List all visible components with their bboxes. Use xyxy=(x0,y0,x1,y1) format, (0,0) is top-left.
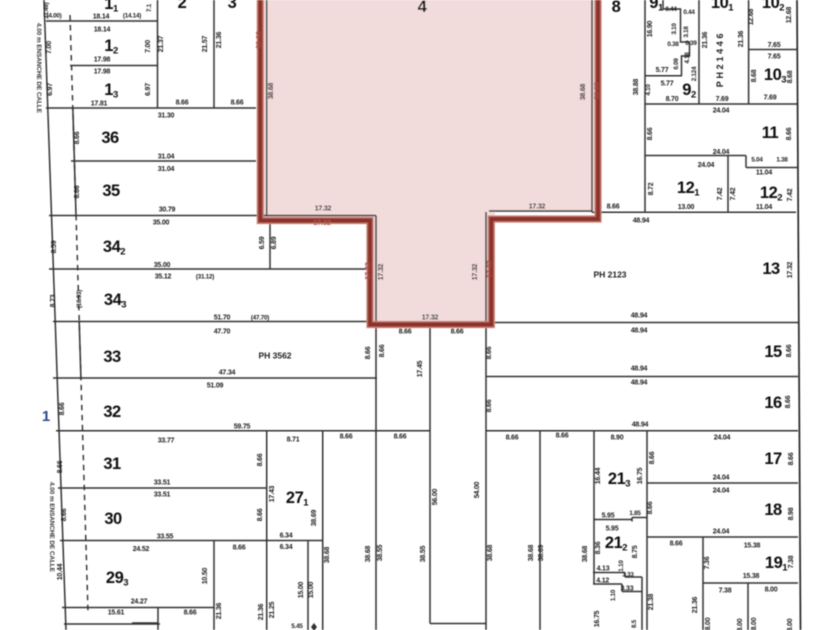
svg-text:21.36: 21.36 xyxy=(738,30,745,47)
svg-text:0.38: 0.38 xyxy=(667,41,679,48)
svg-text:6.97: 6.97 xyxy=(47,83,54,96)
svg-text:8.90: 8.90 xyxy=(611,435,624,442)
svg-text:38.69: 38.69 xyxy=(311,509,318,526)
svg-text:(16.93): (16.93) xyxy=(76,290,83,308)
parcel 9 staircase xyxy=(663,0,690,76)
svg-text:(1.49): (1.49) xyxy=(43,2,50,17)
svg-text:12: 12 xyxy=(104,37,118,57)
svg-text:8.66: 8.66 xyxy=(379,344,386,357)
svg-text:7.42: 7.42 xyxy=(787,188,794,201)
svg-text:24.04: 24.04 xyxy=(713,529,730,536)
svg-text:1.85: 1.85 xyxy=(629,510,641,517)
svg-text:21.25: 21.25 xyxy=(269,601,276,618)
svg-text:4.13: 4.13 xyxy=(597,566,610,573)
svg-text:33.51: 33.51 xyxy=(154,480,171,487)
svg-text:15.38: 15.38 xyxy=(743,573,760,580)
svg-text:24.04: 24.04 xyxy=(713,475,730,482)
svg-text:11: 11 xyxy=(762,124,779,142)
svg-text:8.66: 8.66 xyxy=(607,204,620,211)
svg-text:103: 103 xyxy=(764,66,786,86)
svg-text:8.66: 8.66 xyxy=(257,453,264,466)
svg-text:0.39: 0.39 xyxy=(685,40,697,47)
svg-text:10.44: 10.44 xyxy=(57,563,64,580)
svg-text:31.30: 31.30 xyxy=(158,113,175,120)
svg-text:8.66: 8.66 xyxy=(61,508,68,521)
svg-text:38.68: 38.68 xyxy=(324,546,331,563)
svg-text:343: 343 xyxy=(104,291,126,311)
svg-text:8.66: 8.66 xyxy=(649,451,656,464)
svg-text:6.97: 6.97 xyxy=(145,83,152,96)
svg-text:5.77: 5.77 xyxy=(661,81,674,88)
svg-text:18.14: 18.14 xyxy=(93,14,110,21)
parcel boundary lines xyxy=(46,20,157,22)
left edge solid segments (36/35 and 33) xyxy=(73,107,76,216)
svg-text:8.59: 8.59 xyxy=(51,240,58,253)
svg-text:6.59: 6.59 xyxy=(259,236,266,249)
svg-text:24.04: 24.04 xyxy=(698,162,715,169)
svg-text:15.38: 15.38 xyxy=(744,543,761,550)
svg-text:38.68: 38.68 xyxy=(580,83,587,100)
svg-text:10.50: 10.50 xyxy=(202,567,209,584)
parcel 4 heavy red boundary xyxy=(260,0,598,325)
svg-text:17.32: 17.32 xyxy=(365,262,372,280)
svg-text:17.32: 17.32 xyxy=(472,263,479,280)
svg-text:8.00: 8.00 xyxy=(705,617,712,630)
svg-text:16.90: 16.90 xyxy=(647,20,654,37)
svg-text:8.00: 8.00 xyxy=(751,617,758,630)
svg-text:121: 121 xyxy=(677,179,700,199)
svg-text:7.65: 7.65 xyxy=(768,54,781,61)
svg-text:6.89: 6.89 xyxy=(271,236,278,249)
svg-text:12.68: 12.68 xyxy=(748,8,755,25)
svg-text:271: 271 xyxy=(286,489,309,509)
svg-text:17: 17 xyxy=(764,450,782,468)
svg-text:8.66: 8.66 xyxy=(486,399,493,412)
svg-text:15.61: 15.61 xyxy=(108,610,125,617)
svg-text:32: 32 xyxy=(103,403,121,421)
svg-text:30: 30 xyxy=(104,510,122,528)
svg-text:8.66: 8.66 xyxy=(486,346,493,359)
svg-text:8.66: 8.66 xyxy=(399,329,412,336)
parcel 4 pink fill xyxy=(262,0,595,321)
svg-text:17.32: 17.32 xyxy=(315,206,332,213)
svg-text:7.65: 7.65 xyxy=(768,42,781,49)
svg-text:11.04: 11.04 xyxy=(756,204,772,211)
svg-text:(31.12): (31.12) xyxy=(196,274,214,281)
svg-text:31: 31 xyxy=(103,455,121,473)
svg-text:5.77: 5.77 xyxy=(656,67,669,74)
svg-text:15.00: 15.00 xyxy=(308,581,315,598)
svg-text:8: 8 xyxy=(612,0,621,16)
svg-text:8.66: 8.66 xyxy=(57,460,64,473)
svg-text:17.32: 17.32 xyxy=(313,220,331,227)
ensanche dashed line xyxy=(70,15,88,612)
svg-text:35.12: 35.12 xyxy=(155,274,172,281)
svg-text:15.00: 15.00 xyxy=(298,581,305,598)
svg-text:21.36: 21.36 xyxy=(258,603,265,620)
svg-text:38.68: 38.68 xyxy=(528,544,535,561)
svg-text:54.00: 54.00 xyxy=(474,481,481,498)
svg-text:8.66: 8.66 xyxy=(788,452,795,465)
svg-text:13: 13 xyxy=(762,260,780,278)
svg-text:8.98: 8.98 xyxy=(788,507,795,520)
svg-text:17.32: 17.32 xyxy=(487,260,494,278)
svg-text:5.95: 5.95 xyxy=(606,526,619,533)
svg-text:30.79: 30.79 xyxy=(159,207,176,214)
svg-text:0.44: 0.44 xyxy=(683,9,695,16)
svg-text:8.71: 8.71 xyxy=(287,437,300,444)
svg-text:24.52: 24.52 xyxy=(133,546,150,553)
svg-text:7.69: 7.69 xyxy=(764,95,777,102)
svg-text:3.10: 3.10 xyxy=(671,23,678,35)
svg-text:7.69: 7.69 xyxy=(716,96,729,103)
svg-text:24.04: 24.04 xyxy=(714,435,731,442)
svg-text:13.00: 13.00 xyxy=(678,204,695,211)
svg-text:212: 212 xyxy=(605,534,627,554)
svg-text:38.68: 38.68 xyxy=(487,544,494,561)
svg-text:6.34: 6.34 xyxy=(280,533,293,540)
svg-text:8.66: 8.66 xyxy=(74,131,81,144)
svg-text:48.94: 48.94 xyxy=(631,328,648,335)
svg-text:101: 101 xyxy=(711,0,734,14)
svg-text:8.66: 8.66 xyxy=(233,545,246,552)
svg-text:38.68: 38.68 xyxy=(268,82,275,99)
svg-text:8.66: 8.66 xyxy=(647,501,654,514)
svg-text:8.75: 8.75 xyxy=(632,545,639,558)
svg-text:38.68: 38.68 xyxy=(582,545,589,562)
svg-text:8.66: 8.66 xyxy=(184,610,197,617)
svg-text:2: 2 xyxy=(178,0,187,12)
svg-text:16: 16 xyxy=(764,394,782,412)
svg-text:8.66: 8.66 xyxy=(365,346,372,359)
svg-text:35: 35 xyxy=(102,182,120,200)
svg-text:47.70: 47.70 xyxy=(214,329,231,336)
svg-text:17.32: 17.32 xyxy=(422,315,439,322)
svg-text:8.68: 8.68 xyxy=(751,69,758,82)
small diamond mark bottom center xyxy=(311,623,317,630)
svg-text:5.95: 5.95 xyxy=(602,513,615,520)
svg-text:4.00 m ENSANCHE DE CALLE: 4.00 m ENSANCHE DE CALLE xyxy=(35,23,42,113)
svg-text:92: 92 xyxy=(682,81,696,101)
svg-text:12.68: 12.68 xyxy=(786,6,793,23)
svg-text:8.66: 8.66 xyxy=(506,435,519,442)
svg-text:31.04: 31.04 xyxy=(158,166,175,173)
svg-text:102: 102 xyxy=(762,0,784,14)
svg-text:15: 15 xyxy=(764,343,782,361)
svg-text:59.75: 59.75 xyxy=(234,424,251,431)
svg-text:48.94: 48.94 xyxy=(632,422,649,429)
svg-text:8.00: 8.00 xyxy=(737,618,744,630)
svg-text:1.38: 1.38 xyxy=(776,157,788,164)
svg-text:293: 293 xyxy=(106,569,128,589)
svg-text:8.66: 8.66 xyxy=(785,395,792,408)
svg-text:31.04: 31.04 xyxy=(158,154,175,161)
svg-text:48.94: 48.94 xyxy=(631,380,648,387)
svg-text:35.00: 35.00 xyxy=(154,262,171,269)
svg-text:36: 36 xyxy=(101,129,119,147)
svg-text:0.44: 0.44 xyxy=(665,6,677,13)
svg-text:(14.14): (14.14) xyxy=(123,13,141,20)
svg-text:7.42: 7.42 xyxy=(730,187,737,200)
svg-text:21.36: 21.36 xyxy=(692,596,699,613)
svg-text:17.43: 17.43 xyxy=(269,485,276,502)
svg-text:8.66: 8.66 xyxy=(451,329,464,336)
svg-text:38.68: 38.68 xyxy=(365,545,372,562)
svg-text:38.68: 38.68 xyxy=(256,31,263,49)
svg-text:8.00: 8.00 xyxy=(787,618,794,630)
svg-text:PH21446: PH21446 xyxy=(715,31,725,87)
svg-text:21.36: 21.36 xyxy=(216,31,223,48)
svg-text:7.38: 7.38 xyxy=(788,555,795,568)
svg-text:24.27: 24.27 xyxy=(131,599,148,606)
svg-text:5.45: 5.45 xyxy=(291,623,303,630)
svg-text:8.66: 8.66 xyxy=(670,541,683,548)
svg-text:33.77: 33.77 xyxy=(158,438,175,445)
outer slanted street boundary xyxy=(44,0,66,630)
svg-text:21.38: 21.38 xyxy=(648,593,655,610)
svg-text:18: 18 xyxy=(764,501,782,519)
svg-text:8.72: 8.72 xyxy=(648,182,655,195)
svg-text:7.42: 7.42 xyxy=(717,187,724,200)
svg-text:16.44: 16.44 xyxy=(595,467,602,484)
svg-text:4.00 m ENSANCHE DE CALLE: 4.00 m ENSANCHE DE CALLE xyxy=(48,482,55,572)
svg-text:16.75: 16.75 xyxy=(594,610,601,627)
svg-text:3.33: 3.33 xyxy=(621,586,634,593)
svg-text:5.04: 5.04 xyxy=(751,157,763,164)
svg-text:4.12: 4.12 xyxy=(596,578,609,585)
svg-text:(47.70): (47.70) xyxy=(251,315,269,322)
svg-text:17.98: 17.98 xyxy=(94,69,111,76)
svg-text:8.73: 8.73 xyxy=(50,294,57,307)
right map boundary xyxy=(797,0,801,630)
svg-text:35.00: 35.00 xyxy=(153,220,170,227)
svg-text:17.81: 17.81 xyxy=(91,101,108,108)
svg-text:2.124: 2.124 xyxy=(691,66,698,81)
svg-text:91: 91 xyxy=(649,0,664,14)
svg-text:51.70: 51.70 xyxy=(214,315,231,322)
svg-text:17.32: 17.32 xyxy=(787,261,794,278)
svg-text:8.66: 8.66 xyxy=(74,185,81,198)
svg-text:17.45: 17.45 xyxy=(417,360,424,377)
svg-text:122: 122 xyxy=(760,184,782,204)
svg-text:24.04: 24.04 xyxy=(713,149,730,156)
svg-text:7.00: 7.00 xyxy=(145,40,152,53)
svg-text:48.94: 48.94 xyxy=(631,366,648,373)
svg-text:7.00: 7.00 xyxy=(46,41,53,54)
svg-text:16.75: 16.75 xyxy=(637,467,644,484)
svg-text:8.66: 8.66 xyxy=(340,434,353,441)
svg-text:38.69: 38.69 xyxy=(538,544,545,561)
svg-text:8.68: 8.68 xyxy=(787,70,794,83)
svg-text:1: 1 xyxy=(42,408,50,425)
svg-text:342: 342 xyxy=(103,238,125,258)
svg-text:PH 3562: PH 3562 xyxy=(258,351,291,361)
svg-text:21.36: 21.36 xyxy=(702,31,709,48)
svg-text:24.04: 24.04 xyxy=(713,108,730,115)
svg-text:8.66: 8.66 xyxy=(786,127,793,140)
svg-text:33.55: 33.55 xyxy=(157,534,174,541)
svg-text:38.68: 38.68 xyxy=(594,82,601,100)
svg-text:13: 13 xyxy=(104,81,118,101)
svg-text:4: 4 xyxy=(418,0,428,16)
svg-text:7.1: 7.1 xyxy=(146,3,153,12)
svg-text:17.32: 17.32 xyxy=(378,263,385,280)
svg-text:3.18: 3.18 xyxy=(683,26,690,38)
svg-text:4.18: 4.18 xyxy=(684,52,691,64)
svg-text:21.36: 21.36 xyxy=(216,602,223,619)
svg-text:8.66: 8.66 xyxy=(556,433,569,440)
svg-text:38.88: 38.88 xyxy=(633,78,640,95)
svg-text:8.66: 8.66 xyxy=(231,100,244,107)
svg-text:191: 191 xyxy=(765,554,788,574)
svg-text:4.10: 4.10 xyxy=(645,84,652,96)
svg-text:11: 11 xyxy=(104,0,119,15)
svg-text:8.66: 8.66 xyxy=(394,434,407,441)
svg-text:8.5: 8.5 xyxy=(631,619,638,628)
svg-text:6.09: 6.09 xyxy=(673,58,680,70)
svg-text:33.51: 33.51 xyxy=(154,492,171,499)
svg-text:1.10: 1.10 xyxy=(618,560,625,572)
svg-text:6.34: 6.34 xyxy=(280,544,293,551)
svg-text:17.98: 17.98 xyxy=(94,57,111,64)
svg-text:48.94: 48.94 xyxy=(631,313,648,320)
svg-text:47.34: 47.34 xyxy=(219,370,236,377)
svg-text:8.66: 8.66 xyxy=(786,344,793,357)
svg-text:21.37: 21.37 xyxy=(158,35,165,52)
svg-text:8.66: 8.66 xyxy=(176,100,189,107)
svg-text:8.36: 8.36 xyxy=(595,541,602,554)
svg-text:3: 3 xyxy=(228,0,237,12)
svg-text:1.10: 1.10 xyxy=(610,589,617,601)
svg-text:38.55: 38.55 xyxy=(377,544,384,561)
svg-text:7.36: 7.36 xyxy=(704,556,711,569)
svg-text:33: 33 xyxy=(103,348,121,366)
svg-text:213: 213 xyxy=(608,470,630,490)
svg-text:24.04: 24.04 xyxy=(713,488,730,495)
svg-text:PH 2123: PH 2123 xyxy=(593,270,626,280)
svg-text:7.38: 7.38 xyxy=(719,588,732,595)
svg-text:21.57: 21.57 xyxy=(202,35,209,52)
svg-text:11.04: 11.04 xyxy=(756,170,772,177)
svg-text:38.55: 38.55 xyxy=(420,545,427,562)
svg-text:48.94: 48.94 xyxy=(633,218,650,225)
svg-text:8.66: 8.66 xyxy=(647,127,654,140)
svg-text:18.14: 18.14 xyxy=(94,27,111,34)
svg-text:8.00: 8.00 xyxy=(765,587,778,594)
svg-text:51.09: 51.09 xyxy=(207,383,224,390)
svg-text:8.66: 8.66 xyxy=(257,508,264,521)
svg-text:8.70: 8.70 xyxy=(666,96,679,103)
svg-text:8.66: 8.66 xyxy=(59,402,66,415)
svg-text:56.00: 56.00 xyxy=(432,488,439,505)
svg-text:17.32: 17.32 xyxy=(529,204,546,211)
